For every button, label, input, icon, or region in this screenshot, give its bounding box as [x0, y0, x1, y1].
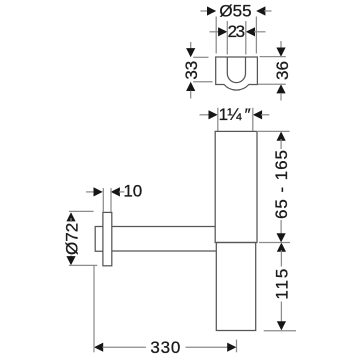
dimension 65 - 165: [258, 131, 291, 242]
svg-text:Ø72: Ø72: [62, 223, 81, 255]
wall pipe stub: [95, 227, 103, 252]
dimension 330: [94, 266, 237, 357]
svg-text:″: ″: [245, 105, 251, 124]
dimension 23: [210, 21, 266, 55]
wall connection pipe: [112, 227, 217, 252]
siphon outer sleeve tube: [215, 131, 257, 242]
svg-text:36: 36: [273, 61, 292, 80]
siphon lower body tube: [216, 243, 255, 331]
dimension 33: [182, 42, 212, 99]
svg-text:115: 115: [273, 269, 292, 300]
dimension Ø72: [62, 211, 97, 265]
flange inner U cutout: [227, 57, 245, 83]
dimension 10: [86, 181, 142, 212]
svg-text:10: 10: [123, 181, 142, 200]
wall rosette disc: [103, 212, 112, 265]
dimension 36: [258, 41, 292, 101]
flange front view outline: [216, 57, 258, 90]
dimension 1 1/4 inch: [200, 105, 270, 132]
svg-text:33: 33: [182, 61, 201, 80]
dimension 115: [264, 243, 296, 331]
svg-text:Ø55: Ø55: [219, 2, 251, 21]
svg-text:¼: ¼: [227, 105, 242, 124]
dimension Ø55: [201, 2, 272, 54]
svg-text:330: 330: [150, 338, 180, 357]
svg-text:23: 23: [228, 22, 246, 41]
svg-text:65 - 165: 65 - 165: [272, 150, 291, 219]
